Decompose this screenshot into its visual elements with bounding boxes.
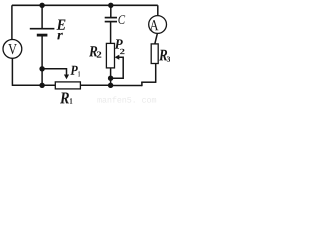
slider P2 arrowhead <box>115 55 120 60</box>
label R3 <box>159 50 170 62</box>
wire bottom left to R1 <box>12 84 56 86</box>
wire ammeter bottom to R3 top <box>155 33 158 44</box>
wire capacitor branch from top node <box>110 5 112 17</box>
wire battery negative to bottom wire <box>41 35 43 85</box>
ammeter A <box>149 16 167 34</box>
wire bottom right upper segment <box>141 81 156 83</box>
battery E,r long plate <box>30 28 55 30</box>
label C <box>118 15 125 24</box>
resistor R1 box <box>55 82 80 89</box>
node A slider short junction <box>108 76 113 81</box>
label R2 <box>89 46 101 57</box>
resistor R2 box <box>106 43 114 68</box>
capacitor C bottom plate <box>105 21 117 23</box>
label R1 <box>60 93 72 104</box>
label P2 <box>115 39 125 54</box>
node P1 branch junction <box>39 66 44 71</box>
wire top right corner down to ammeter <box>157 5 159 15</box>
wire left side down to voltmeter <box>11 5 13 39</box>
capacitor C top plate <box>105 17 117 19</box>
battery E,r short plate <box>37 34 48 37</box>
wire top <box>12 4 158 6</box>
resistor R3 box <box>151 44 158 64</box>
wire battery branch from top node <box>41 5 43 28</box>
voltmeter V <box>3 40 22 59</box>
node B bottom wire junction <box>108 83 113 88</box>
label r <box>57 33 63 40</box>
wire jog up at bottom right <box>141 82 143 86</box>
node battery bottom junction <box>39 83 44 88</box>
wire R2 bottom through node A to node B <box>110 68 112 85</box>
wire R3 bottom down to corner <box>155 63 157 83</box>
wire voltmeter bottom to bottom-left corner <box>11 58 13 84</box>
wire P1 branch from node to slider <box>42 69 66 75</box>
node battery top junction <box>39 3 44 8</box>
wire bottom right <box>111 85 142 87</box>
wire R1 right to node B <box>80 84 110 86</box>
wire capacitor bottom to R2 top <box>110 22 112 43</box>
slider P1 arrowhead <box>64 75 69 80</box>
label P1 <box>70 66 80 77</box>
watermark <box>97 96 156 102</box>
label E <box>57 20 66 30</box>
wire P2 slider to node A <box>111 57 124 78</box>
node capacitor top junction <box>108 3 113 8</box>
